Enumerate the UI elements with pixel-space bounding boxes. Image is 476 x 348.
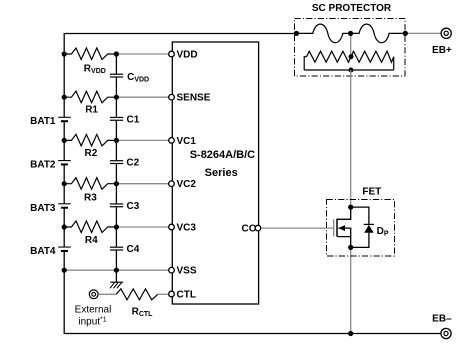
svg-text:External: External bbox=[75, 305, 112, 316]
transistor Q1 gate plate bbox=[333, 219, 335, 236]
svg-text:VSS: VSS bbox=[177, 266, 197, 277]
terminal EB+ bbox=[432, 28, 452, 56]
node left rail R2 bbox=[62, 138, 67, 143]
pin VC1 bbox=[169, 136, 197, 147]
pin VC3 bbox=[169, 222, 197, 233]
svg-text:BAT4: BAT4 bbox=[30, 246, 56, 257]
svg-text:S-8264A/B/C: S-8264A/B/C bbox=[190, 149, 255, 161]
wire fuse junction tap gray bbox=[350, 33, 352, 56]
wire EB+ lead gray bbox=[405, 32, 441, 34]
wire VC3 row gray bbox=[116, 226, 168, 228]
svg-text:EB–: EB– bbox=[432, 313, 452, 324]
svg-text:Series: Series bbox=[205, 167, 238, 179]
node SC protector right bbox=[403, 31, 408, 36]
svg-text:BAT3: BAT3 bbox=[30, 203, 56, 214]
node left rail RVDD bbox=[62, 51, 67, 56]
FET dashed box bbox=[327, 200, 395, 257]
diode DP bbox=[351, 207, 389, 247]
svg-text:SC PROTECTOR: SC PROTECTOR bbox=[312, 3, 392, 14]
svg-text:R2: R2 bbox=[85, 148, 98, 159]
capacitor C4 bbox=[110, 244, 140, 255]
transistor Q1 channel bbox=[336, 219, 338, 237]
transistor Q1 body arrow bbox=[338, 228, 350, 237]
wire left rail segment BAT1-BAT2 bbox=[63, 122, 65, 161]
chassis ground stub bbox=[115, 270, 117, 282]
wire heater bottom bbox=[304, 69, 394, 71]
terminal external input bbox=[75, 290, 112, 328]
svg-text:SENSE: SENSE bbox=[177, 93, 211, 104]
pin SENSE bbox=[169, 93, 211, 104]
resistor R4 bbox=[64, 221, 116, 246]
resistor RVDD bbox=[64, 48, 116, 75]
svg-text:R4: R4 bbox=[85, 235, 98, 246]
wire CO to FET gate gray bbox=[261, 227, 334, 229]
svg-text:C1: C1 bbox=[127, 114, 140, 125]
SC protector dashed box bbox=[295, 19, 406, 77]
node SC protector left bbox=[294, 31, 299, 36]
svg-text:C4: C4 bbox=[127, 244, 140, 255]
pin CO bbox=[242, 224, 261, 235]
wire SC protector to FET gray bbox=[350, 70, 352, 207]
resistor RCTL bbox=[116, 289, 158, 318]
svg-text:BAT2: BAT2 bbox=[30, 160, 56, 171]
node left rail R4 bbox=[62, 224, 67, 229]
node left rail R3 bbox=[62, 181, 67, 186]
wire capacitor rail segments bbox=[115, 54, 117, 74]
svg-text:CTL: CTL bbox=[177, 289, 196, 300]
pin VSS bbox=[169, 266, 197, 277]
capacitor C1 bbox=[110, 114, 140, 125]
node left rail VSS bbox=[62, 268, 67, 273]
transistor Q1 drain path bbox=[337, 207, 350, 219]
wire SENSE row gray bbox=[116, 96, 168, 98]
node cap rail VC2 bbox=[114, 181, 119, 186]
node cap rail SENSE bbox=[114, 95, 119, 100]
node SC protector middle bbox=[348, 31, 353, 36]
svg-text:CO: CO bbox=[242, 224, 257, 235]
battery BAT1 bbox=[30, 116, 71, 127]
wire top frame bbox=[64, 34, 296, 118]
node cap rail VC3 bbox=[114, 224, 119, 229]
fuse F1 bbox=[297, 24, 351, 43]
battery BAT4 bbox=[30, 246, 71, 257]
wire VSS row gray bbox=[64, 269, 168, 271]
pin CTL bbox=[169, 289, 196, 300]
node FET source bbox=[348, 245, 353, 250]
wire left rail segment BAT2-BAT3 bbox=[63, 165, 65, 204]
chassis ground bbox=[110, 282, 123, 288]
node heater bottom bbox=[349, 68, 354, 73]
resistor heater right bbox=[351, 51, 394, 70]
node cap rail VDD bbox=[114, 51, 119, 56]
wire VDD row gray bbox=[116, 53, 168, 55]
svg-text:VC3: VC3 bbox=[177, 222, 197, 233]
svg-text:R1: R1 bbox=[85, 104, 98, 115]
battery BAT2 bbox=[30, 160, 71, 171]
wire left rail segment BAT3-BAT4 bbox=[63, 208, 65, 247]
resistor R3 bbox=[64, 178, 116, 204]
battery BAT3 bbox=[30, 203, 71, 214]
wire VC1 row gray bbox=[116, 139, 168, 141]
fuse F2 bbox=[351, 24, 406, 43]
capacitor C2 bbox=[110, 158, 140, 169]
node cap rail VC1 bbox=[114, 138, 119, 143]
node heater tap bbox=[349, 54, 354, 59]
svg-text:VC1: VC1 bbox=[177, 136, 197, 147]
svg-text:R3: R3 bbox=[84, 192, 97, 203]
svg-text:C2: C2 bbox=[126, 158, 139, 169]
wire external input to RCTL gray bbox=[98, 293, 116, 295]
terminal EB- bbox=[432, 313, 452, 338]
pin VDD bbox=[169, 49, 198, 60]
wire RCTL to CTL pin gray bbox=[158, 293, 169, 295]
svg-text:BAT1: BAT1 bbox=[30, 116, 56, 127]
transistor Q1 source path bbox=[337, 237, 350, 248]
wire FET to bottom rail gray bbox=[350, 247, 352, 333]
wire left rail bottom + bottom frame to EB- bbox=[64, 251, 441, 333]
capacitor CVDD bbox=[110, 72, 149, 84]
pin VC2 bbox=[169, 179, 197, 190]
resistor R1 bbox=[64, 91, 116, 115]
node cap rail VSS bbox=[114, 268, 119, 273]
node left rail R1 bbox=[62, 95, 67, 100]
wire VC2 row gray bbox=[116, 183, 168, 185]
svg-text:FET: FET bbox=[362, 186, 381, 197]
svg-text:C3: C3 bbox=[127, 201, 140, 212]
capacitor C3 bbox=[110, 201, 140, 212]
svg-text:VDD: VDD bbox=[177, 49, 198, 60]
svg-text:VC2: VC2 bbox=[177, 179, 197, 190]
node bottom rail FET bbox=[348, 331, 353, 336]
op-amp U1 IC box S-8264A/B/C bbox=[172, 42, 258, 304]
svg-text:EB+: EB+ bbox=[432, 45, 452, 56]
resistor R2 bbox=[64, 134, 116, 159]
node FET drain bbox=[348, 205, 353, 210]
resistor heater left bbox=[304, 51, 351, 70]
